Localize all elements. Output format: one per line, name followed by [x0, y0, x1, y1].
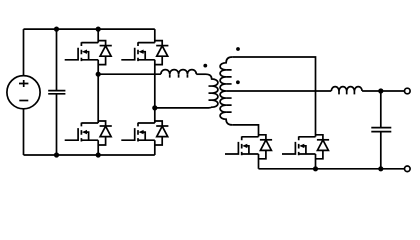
DC source V1 — [7, 76, 40, 109]
junction dot: output bottom node — [378, 166, 383, 171]
wire: L2 to output terminal — [362, 90, 404, 92]
junction dot: leg A midpoint — [96, 72, 101, 77]
transistor QR2 (sync rectifier right) — [282, 135, 329, 159]
capacitor C1 — [48, 29, 65, 155]
wire: right leg — [154, 29, 156, 155]
transistor QR1 (sync rectifier left) — [225, 135, 272, 159]
transistor Q1 (top-left MOSFET) — [65, 41, 112, 65]
wire: secondary center tap to output — [226, 90, 331, 92]
terminal: output positive — [405, 88, 411, 94]
junction dot: Q2 source at rail — [96, 152, 101, 157]
transformer T1 primary winding — [206, 74, 218, 108]
wire: left column — [23, 29, 25, 155]
transistor Q2 (bottom-left MOSFET) — [65, 121, 112, 145]
transistor Q3 (top-right MOSFET) — [121, 41, 168, 65]
terminal: output negative — [405, 166, 411, 172]
wire: QR2 source to bottom rail — [315, 154, 317, 169]
transformer T1 secondary winding — [220, 57, 232, 125]
wire: leg A midpoint to series inductor — [98, 73, 161, 75]
junction dot: QR2 source at rail — [313, 166, 318, 171]
junction dot: Q1 drain at rail — [96, 27, 101, 32]
wire: L1 to transformer primary — [196, 73, 205, 75]
capacitor C2 (output) — [371, 91, 391, 169]
wire: primary bottom to leg B midpoint — [155, 107, 206, 109]
wire: secondary bottom terminal to QR1 drain — [232, 125, 258, 137]
inductor L2 (output filter) — [331, 87, 362, 95]
inductor L1 (series resonant) — [161, 70, 196, 78]
node dot: T1 secondary lower polarity — [236, 80, 240, 84]
junction dot: C1 bottom — [54, 152, 59, 157]
wire: secondary top terminal to QR2 drain — [232, 57, 315, 137]
node dot: T1 secondary top polarity — [236, 47, 240, 51]
transistor Q4 (bottom-right MOSFET) — [121, 121, 168, 145]
wire: bottom rail (primary) — [24, 154, 155, 156]
junction dot: output top node — [378, 88, 383, 93]
wire: left leg — [97, 29, 99, 155]
junction dot: leg B midpoint — [152, 105, 157, 110]
wire: QR1 source to bottom rail — [258, 154, 260, 169]
wire: bottom rail (secondary) — [259, 168, 405, 170]
wire: top rail — [24, 28, 155, 30]
node dot: T1 primary polarity — [203, 64, 207, 68]
junction dot: C1 top — [54, 27, 59, 32]
